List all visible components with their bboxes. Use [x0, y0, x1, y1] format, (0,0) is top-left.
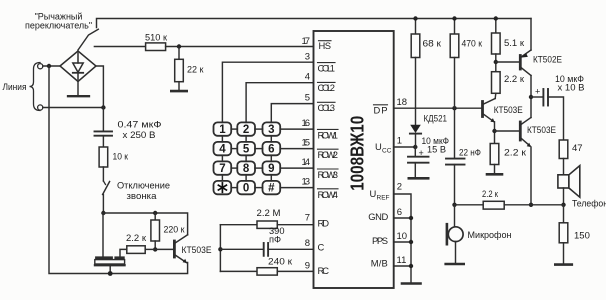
- wire Q3 base: [495, 130, 520, 132]
- node junction PPS: [409, 240, 413, 244]
- wire mic line: [455, 204, 484, 206]
- wire ROW3: [280, 167, 313, 169]
- wire cap to 10k: [102, 136, 104, 147]
- wire 10k to ringer switch: [102, 167, 104, 181]
- wire UREF pin2: [394, 194, 411, 283]
- wire Q3 emitter down: [530, 147, 532, 205]
- svg-text:DP: DP: [374, 104, 388, 115]
- svg-text:9: 9: [305, 260, 310, 271]
- node junction base KT502: [494, 60, 498, 64]
- wire 470k chain: [454, 19, 456, 35]
- svg-text:#: #: [268, 183, 275, 195]
- node junction left rail top: [47, 64, 51, 68]
- star glyph: [218, 183, 226, 192]
- pin labels left inside: [318, 40, 339, 276]
- svg-text:47: 47: [572, 143, 583, 154]
- wire base: [155, 248, 173, 250]
- svg-text:GND: GND: [368, 211, 388, 222]
- overline DP: [374, 104, 388, 106]
- wire speaker to mic line: [563, 188, 565, 205]
- svg-text:3: 3: [305, 51, 310, 62]
- node junction 470k/22nF: [452, 106, 456, 110]
- wire Ucc pin1: [394, 146, 416, 148]
- transistor Q1 KT503E: [483, 99, 496, 123]
- node junction GND: [409, 216, 413, 220]
- wire ROW2: [280, 148, 313, 150]
- wire COL1: [222, 62, 313, 122]
- wire COL2: [246, 83, 313, 123]
- node junction Q3 base: [492, 129, 496, 133]
- svg-text:68 к: 68 к: [423, 38, 442, 49]
- resistor 2.2k mic: [483, 201, 504, 209]
- svg-text:Отключение: Отключение: [117, 180, 170, 190]
- node junction cap 10uF10V: [529, 95, 533, 99]
- wire 150 to ground: [563, 243, 565, 264]
- svg-text:10 к: 10 к: [113, 152, 129, 163]
- wire 5.1k top: [495, 19, 497, 34]
- ground bar below mic: [446, 263, 464, 266]
- button 4: [214, 142, 232, 155]
- svg-text:U: U: [370, 188, 377, 199]
- svg-text:HS: HS: [319, 40, 332, 51]
- terminal line b: [38, 105, 43, 110]
- wire ROW1: [280, 128, 313, 130]
- wire RD: [220, 224, 257, 226]
- svg-text:7: 7: [219, 163, 225, 175]
- resistor 510k: [146, 43, 166, 51]
- svg-text:х 250 В: х 250 В: [123, 130, 156, 140]
- svg-text:240 к: 240 к: [268, 256, 293, 267]
- wire 2.2k left to piezo: [120, 249, 127, 256]
- wire 220k top: [154, 213, 156, 220]
- resistor 220k: [151, 220, 160, 241]
- wire 2.2k to Q1 collector: [494, 93, 497, 98]
- wire bridge bottom stub: [77, 82, 79, 96]
- svg-text:REF: REF: [377, 194, 390, 201]
- wire to cap 0.47: [102, 108, 104, 132]
- microphone: [447, 224, 463, 244]
- svg-text:2: 2: [243, 124, 249, 136]
- button 0: [237, 181, 255, 194]
- RC network left rail: [219, 225, 221, 272]
- button hash: [263, 181, 281, 194]
- node junction Ucc: [413, 145, 417, 149]
- wire mic top: [454, 205, 456, 228]
- svg-text:Линия: Линия: [3, 82, 27, 92]
- wire 68k to diode: [415, 58, 417, 125]
- transistor KT502E: [520, 19, 531, 98]
- svg-text:PPS: PPS: [372, 235, 388, 246]
- svg-text:2.2 к: 2.2 к: [126, 233, 147, 244]
- svg-text:M/B: M/B: [371, 258, 388, 269]
- svg-text:2.2 М: 2.2 М: [257, 208, 281, 219]
- svg-text:510 к: 510 к: [145, 32, 168, 43]
- wire piezo bottom: [109, 267, 111, 274]
- svg-text:5.1 к: 5.1 к: [504, 38, 525, 49]
- button 8: [237, 161, 255, 174]
- svg-text:+: +: [535, 87, 540, 97]
- wire ROW4: [280, 187, 313, 189]
- svg-text:3: 3: [268, 124, 274, 136]
- svg-text:22 к: 22 к: [187, 65, 204, 76]
- brace for Линия: [30, 63, 41, 111]
- node junction piezo bottom: [108, 271, 113, 276]
- svg-text:звонка: звонка: [127, 191, 158, 201]
- svg-text:5: 5: [305, 92, 310, 103]
- wire 22k bottom: [178, 82, 180, 91]
- button 9: [263, 161, 281, 174]
- wire to cap 10uF10V: [531, 96, 543, 98]
- wire 5.1k to base node: [495, 54, 497, 72]
- resistor 10k: [99, 147, 108, 167]
- diode KD521: [410, 125, 421, 133]
- wire ringer top rail: [103, 213, 187, 235]
- svg-text:2.2 к: 2.2 к: [504, 148, 527, 159]
- node junction 68k top: [413, 16, 417, 20]
- svg-text:+: +: [419, 148, 424, 158]
- wire 240k to pin 9: [277, 270, 313, 272]
- wire bridge right vertex down: [96, 66, 103, 108]
- wire 510k to IC pin17: [166, 46, 314, 48]
- svg-text:16: 16: [302, 118, 311, 129]
- wire diode to Ucc node: [415, 134, 417, 147]
- transistor Q3 KT503E: [520, 118, 531, 148]
- button 3: [263, 122, 281, 135]
- wire 22nF chain: [454, 108, 456, 158]
- pin labels right inside: [368, 104, 388, 268]
- wire HS line (pin 17): [94, 46, 145, 48]
- svg-text:22 нФ: 22 нФ: [459, 147, 481, 158]
- svg-text:5: 5: [243, 144, 250, 156]
- wire Q1 emitter down: [494, 122, 496, 144]
- svg-text:КТ503Е: КТ503Е: [527, 125, 556, 136]
- button 1: [214, 122, 232, 135]
- wire KT502 collector to Q3 collector: [530, 97, 532, 118]
- ground bar below bridge: [68, 95, 89, 97]
- svg-text:0: 0: [243, 183, 249, 195]
- svg-text:CC: CC: [382, 147, 392, 154]
- bridge rectifier VD: [60, 51, 96, 82]
- wire Ucc node to cap: [414, 147, 416, 156]
- wire cap390 to pin 8: [268, 248, 313, 250]
- svg-text:х 10 В: х 10 В: [558, 83, 585, 93]
- resistor 5.1k: [492, 33, 501, 54]
- button 6: [263, 142, 281, 155]
- svg-text:ROW2: ROW2: [318, 149, 339, 160]
- resistor 2.2k ringer: [127, 246, 145, 254]
- keypad buttons: [214, 122, 281, 194]
- wire PPS pin10: [394, 241, 411, 243]
- wire 68k chain top: [415, 19, 417, 35]
- svg-text:17: 17: [302, 36, 311, 47]
- wire cap to ground: [414, 163, 416, 178]
- svg-text:COL3: COL3: [318, 102, 336, 113]
- resistor 2.2k upper: [492, 72, 501, 94]
- svg-text:10: 10: [397, 231, 408, 242]
- svg-text:1008ВЖ10: 1008ВЖ10: [347, 116, 368, 191]
- svg-text:ROW3: ROW3: [318, 169, 339, 180]
- button 2: [237, 122, 255, 135]
- capacitor 22nF: [446, 158, 465, 160]
- node junction at cap chain top: [101, 105, 105, 109]
- svg-text:2: 2: [397, 182, 402, 193]
- wire COL3: [271, 104, 313, 123]
- capacitor 10uF 10V: [542, 89, 544, 106]
- svg-text:8: 8: [243, 163, 250, 175]
- resistor 47: [559, 140, 568, 159]
- wire switch to ringer node: [102, 195, 104, 214]
- terminal line a: [38, 64, 43, 69]
- pin numbers left: [302, 36, 311, 271]
- wire bottom ground return: [110, 263, 187, 274]
- svg-text:переключатель": переключатель": [25, 21, 92, 31]
- svg-text:15: 15: [302, 137, 311, 148]
- op IC U1 1008VZh10 box: [314, 31, 394, 288]
- wire 22nF bottom: [454, 165, 456, 205]
- wire base KT502: [496, 61, 520, 63]
- wire RC: [220, 270, 257, 272]
- ground bar below 150: [555, 263, 572, 266]
- resistor 22k: [175, 59, 184, 81]
- resistor 240k: [257, 268, 277, 275]
- svg-text:RD: RD: [318, 218, 330, 229]
- svg-text:14: 14: [302, 157, 311, 168]
- svg-text:11: 11: [397, 255, 407, 266]
- node junction 470k top: [452, 16, 456, 20]
- svg-text:1: 1: [219, 124, 226, 136]
- wire DP pin18: [394, 107, 482, 109]
- svg-text:150: 150: [574, 230, 590, 241]
- svg-text:9: 9: [268, 163, 274, 175]
- wire switch rail to piezo: [102, 213, 104, 256]
- svg-text:ROW4: ROW4: [318, 189, 339, 200]
- ground bar below 10uF15V: [409, 177, 428, 180]
- node junction 5.1k top: [494, 16, 498, 20]
- ground bar pin rail: [402, 282, 421, 285]
- node junction ringer top left: [101, 211, 105, 215]
- hook switch arm: [78, 29, 98, 50]
- wire keypad column links: [222, 136, 271, 181]
- capacitor 0.47uF 250V: [95, 130, 113, 132]
- ringer switch: [103, 181, 105, 185]
- button 7: [214, 161, 232, 174]
- svg-text:6: 6: [268, 144, 274, 156]
- piezo ringer element: [95, 258, 125, 265]
- svg-text:Телефон: Телефон: [572, 199, 606, 209]
- wire terminal b to cap chain: [43, 107, 104, 109]
- svg-text:КТ502Е: КТ502Е: [533, 54, 562, 65]
- resistor 470k: [450, 34, 459, 58]
- wire GND pin6: [394, 217, 411, 219]
- svg-text:COL2: COL2: [318, 82, 336, 93]
- resistor 150: [563, 205, 565, 223]
- resistor 2.2k emitter: [490, 144, 499, 165]
- resistor 2.2M: [257, 221, 277, 228]
- wire 2.2k mic to emitter node: [504, 204, 563, 206]
- svg-text:15 В: 15 В: [427, 144, 446, 154]
- svg-text:18: 18: [397, 97, 408, 108]
- wire 220k bottom to base node: [154, 241, 156, 249]
- wire left rail: [49, 66, 110, 274]
- svg-text:220 к: 220 к: [164, 224, 186, 235]
- svg-text:2.2 к: 2.2 к: [482, 189, 499, 200]
- svg-text:470 к: 470 к: [462, 38, 483, 49]
- svg-text:пФ: пФ: [269, 235, 281, 245]
- svg-text:КД521: КД521: [424, 113, 448, 124]
- wire C to cap390: [220, 248, 263, 250]
- node junction 22k: [177, 44, 181, 48]
- button star: [214, 181, 232, 194]
- speaker telephone: [558, 166, 580, 198]
- svg-text:0.47 мкФ: 0.47 мкФ: [118, 120, 162, 130]
- capacitor 390pF: [263, 243, 265, 256]
- node junction M/B: [409, 264, 413, 268]
- wire 2.2M to pin 7: [277, 224, 313, 226]
- resistor 68k: [411, 34, 420, 58]
- label hook switch: [25, 12, 92, 31]
- node junction mic line left: [452, 203, 456, 207]
- wire 2.2k to ground: [494, 165, 496, 175]
- ground bar below 2.2k: [487, 173, 502, 176]
- wire 2.2k right to base node: [145, 248, 155, 250]
- capacitor 10uF 15V: [408, 156, 429, 158]
- svg-text:КТ503Е: КТ503Е: [182, 245, 212, 256]
- svg-text:Микрофон: Микрофон: [468, 230, 512, 240]
- svg-text:6: 6: [397, 207, 402, 218]
- svg-text:2.2 к: 2.2 к: [504, 74, 525, 85]
- wire 47 to speaker: [563, 159, 565, 175]
- svg-text:4: 4: [305, 71, 310, 82]
- wire 470k bottom: [454, 58, 456, 109]
- svg-text:COL1: COL1: [318, 62, 336, 73]
- node junction 220k top: [153, 211, 157, 215]
- wire top rail with contact bend: [97, 19, 532, 28]
- svg-text:4: 4: [219, 144, 226, 156]
- svg-text:7: 7: [305, 212, 310, 223]
- wire mic bottom: [455, 242, 457, 264]
- pin numbers right: [397, 97, 408, 266]
- overlines left labels: [318, 41, 339, 189]
- ground bar below 22k: [171, 90, 186, 93]
- node junction Q3 emitter mic line: [529, 203, 533, 207]
- svg-text:1: 1: [397, 135, 402, 146]
- node junction base VT ringer: [153, 247, 157, 251]
- svg-text:RC: RC: [318, 265, 330, 276]
- svg-text:C: C: [318, 242, 325, 253]
- wire M/B pin11: [394, 265, 411, 267]
- svg-text:13: 13: [302, 176, 311, 187]
- svg-text:8: 8: [305, 238, 310, 249]
- wire cap to 47: [548, 97, 564, 140]
- node junction C pin: [218, 247, 222, 251]
- svg-text:ROW1: ROW1: [318, 129, 339, 140]
- wire 22k top: [178, 47, 180, 60]
- node junction speaker mic line: [561, 203, 565, 207]
- svg-text:КТ503Е: КТ503Е: [494, 105, 523, 116]
- transistor VT ringer KT503E: [174, 235, 187, 263]
- wire keypad row links: [231, 129, 262, 188]
- svg-text:U: U: [375, 141, 382, 152]
- button 5: [237, 142, 255, 155]
- wire terminal a to bridge: [43, 65, 60, 67]
